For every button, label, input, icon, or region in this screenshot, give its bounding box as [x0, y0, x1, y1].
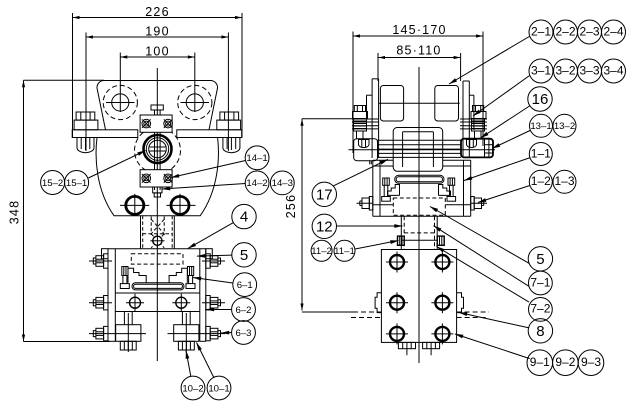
svg-text:7–1: 7–1: [530, 275, 550, 289]
body bottom bolt circle right: [166, 194, 195, 215]
dimension 226: [73, 5, 243, 138]
side bolts right column: [206, 254, 221, 268]
balloon 9-2: [553, 350, 579, 376]
svg-text:13–1: 13–1: [530, 121, 551, 132]
jaw left: [128, 268, 146, 283]
left bracket bolt: [74, 112, 98, 153]
balloon 1-3: [553, 170, 576, 193]
balloon 2-2: [554, 20, 578, 44]
balloon 1-2: [529, 170, 552, 193]
block side tab left: [375, 293, 381, 313]
block hole right: [172, 294, 190, 312]
side bolts left column: [93, 254, 108, 268]
svg-text:12: 12: [316, 218, 333, 235]
block top edge: [108, 248, 206, 250]
svg-text:15–1: 15–1: [66, 178, 87, 189]
dimension 190: [86, 24, 228, 151]
balloon 13-1: [530, 114, 553, 137]
block side plates: [108, 249, 206, 342]
svg-text:11–2: 11–2: [311, 246, 332, 257]
svg-text:2–4: 2–4: [603, 24, 623, 38]
svg-text:3–2: 3–2: [555, 63, 575, 77]
balloon 2-1: [529, 20, 553, 44]
svg-text:3–3: 3–3: [579, 63, 599, 77]
svg-text:190: 190: [145, 24, 169, 38]
stud: [154, 110, 156, 190]
svg-text:145·170: 145·170: [392, 23, 446, 37]
gasket bar: [132, 283, 184, 290]
svg-text:8: 8: [536, 323, 544, 340]
svg-text:9–2: 9–2: [555, 355, 575, 369]
balloon 4: [232, 204, 256, 228]
balloon 15-1: [65, 171, 89, 195]
leaders: [88, 37, 530, 378]
svg-text:3–1: 3–1: [531, 63, 551, 77]
center connector circles: [144, 135, 172, 163]
bolt 6-1 left: [120, 267, 129, 289]
side bolt left rv: [357, 197, 373, 211]
bar 17: [349, 140, 496, 157]
svg-text:14–3: 14–3: [272, 178, 293, 189]
jaw right: [169, 268, 187, 283]
svg-text:10–2: 10–2: [182, 383, 203, 394]
dimension 348: [8, 80, 111, 341]
balloon 6-1: [233, 273, 257, 297]
mounting plate left segment: [72, 130, 138, 138]
block horizontal edges: [115, 292, 200, 294]
svg-text:4: 4: [240, 209, 248, 226]
balloon 14-1: [245, 146, 269, 170]
svg-text:11–1: 11–1: [334, 246, 355, 257]
small bolt right: [447, 178, 456, 201]
svg-text:6–1: 6–1: [237, 280, 253, 291]
neck: [141, 216, 175, 249]
balloon 7-2: [529, 298, 553, 322]
neck nut right: [437, 236, 444, 245]
main round body: [96, 138, 218, 216]
right bracket bolt: [217, 112, 241, 153]
balloon 3-3: [578, 59, 602, 83]
clamp bolt left lower end: [369, 161, 371, 165]
balloon 12: [312, 214, 336, 238]
svg-text:5: 5: [536, 251, 544, 268]
svg-text:1–3: 1–3: [554, 174, 574, 188]
balloon 3-2: [554, 59, 578, 83]
svg-text:16: 16: [532, 91, 549, 108]
balloon 8: [528, 319, 552, 343]
svg-text:10–1: 10–1: [208, 383, 229, 394]
dashed cavity rv: [393, 198, 445, 215]
svg-text:6–3: 6–3: [235, 328, 251, 339]
shaft end 16: [461, 139, 493, 158]
svg-text:13–2: 13–2: [554, 121, 575, 132]
gasket bar right view: [395, 175, 444, 183]
neck rv: [401, 216, 437, 249]
balloon 10-2: [181, 376, 205, 400]
bracket plates: [371, 79, 373, 158]
capsule cover right: [435, 86, 459, 122]
pipe hidden lines: [353, 311, 381, 313]
jaw right rv: [439, 185, 451, 196]
balloon 13-2: [553, 114, 576, 137]
svg-text:100: 100: [145, 44, 169, 58]
centerline: [156, 68, 158, 361]
balloon 17: [312, 182, 336, 206]
bracket plate edge lines: [352, 119, 487, 129]
block hole left: [126, 294, 144, 312]
svg-text:5: 5: [240, 247, 248, 264]
svg-text:3–4: 3–4: [603, 63, 623, 77]
ear hole dashed circle right: [178, 85, 212, 119]
balloon 15-2: [41, 171, 65, 195]
svg-text:1–1: 1–1: [531, 146, 551, 160]
drain fitting right: [174, 312, 199, 353]
balloon 3-4: [602, 59, 626, 83]
balloon 11-1: [334, 240, 355, 261]
side bolt right rv: [471, 197, 487, 211]
block top tabs: [102, 249, 109, 259]
balloon 9-1: [527, 350, 553, 376]
row centerlines: [89, 260, 112, 262]
balloon 6-2: [232, 298, 256, 322]
svg-text:15–2: 15–2: [42, 178, 63, 189]
main body: [373, 160, 471, 216]
svg-text:226: 226: [145, 5, 169, 19]
balloon 3-1: [529, 59, 553, 83]
balloon 11-2: [311, 240, 332, 261]
ear hole dashed circle left: [103, 85, 137, 119]
dimension 256: [284, 119, 353, 312]
dashed cavity: [131, 254, 183, 264]
drain fitting left: [116, 312, 141, 353]
balloon 10-1: [207, 376, 231, 400]
dimension 85·110: [378, 43, 461, 81]
bolt 6-1 right: [186, 267, 195, 289]
svg-text:14–1: 14–1: [246, 153, 267, 164]
svg-text:9–3: 9–3: [581, 355, 601, 369]
ear hole right: [186, 94, 203, 111]
center dashed circle: [135, 128, 181, 174]
svg-text:2–2: 2–2: [555, 24, 575, 38]
manifold block rv: [381, 250, 456, 343]
block bolts rv: [386, 252, 408, 273]
svg-text:7–2: 7–2: [530, 302, 550, 316]
jaw left rv: [388, 185, 400, 196]
neck nut left: [398, 236, 405, 245]
ear hole left: [112, 94, 129, 111]
balloon 1-1: [529, 143, 552, 166]
top plate with ears: [97, 80, 218, 129]
svg-text:256: 256: [284, 194, 298, 218]
top flange block: [140, 115, 172, 132]
balloon 7-1: [529, 271, 553, 295]
svg-text:348: 348: [8, 200, 22, 224]
balloon 16: [528, 87, 552, 111]
balloon 5 right: [528, 247, 552, 271]
vent plug nut: [153, 187, 162, 193]
balloon 14-2: [245, 171, 269, 195]
svg-text:14–2: 14–2: [246, 178, 267, 189]
dimension 145·170: [353, 23, 483, 153]
centerline: [418, 67, 420, 363]
dimension 100: [120, 44, 195, 112]
body bottom bolt circle left: [120, 194, 149, 215]
small bolt left: [382, 178, 391, 201]
capsule cover left: [380, 86, 403, 122]
balloon 5 left: [232, 243, 256, 267]
clamp bolt right: [467, 106, 487, 148]
bar left end block: [354, 139, 378, 161]
bottom flange block: [140, 170, 172, 187]
block feet: [398, 342, 415, 355]
capsule split line: [379, 102, 460, 104]
svg-text:6–2: 6–2: [235, 305, 251, 316]
balloon 14-3: [270, 171, 294, 195]
balloon 2-3: [578, 20, 602, 44]
svg-text:2–3: 2–3: [579, 24, 599, 38]
svg-text:2–1: 2–1: [531, 24, 551, 38]
stud cap: [151, 105, 163, 110]
clamp bolt left: [353, 106, 370, 148]
svg-text:9–1: 9–1: [530, 355, 550, 369]
svg-text:1–2: 1–2: [531, 174, 551, 188]
balloon 6-3: [232, 321, 256, 345]
svg-text:17: 17: [316, 186, 333, 203]
balloon 2-4: [602, 20, 626, 44]
balloon 9-3: [578, 350, 604, 376]
svg-text:85·110: 85·110: [396, 43, 441, 57]
mounting plate right segment: [177, 130, 242, 138]
capsule body: [393, 128, 443, 172]
block side tab right: [457, 293, 464, 313]
